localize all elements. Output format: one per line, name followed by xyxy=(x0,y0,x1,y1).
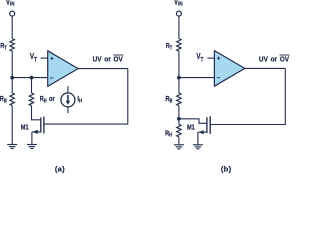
wire output (b) xyxy=(245,67,285,69)
wire feedback to M1 gate (b) xyxy=(210,68,285,124)
wire RT to RB (a) xyxy=(11,51,13,93)
label UV or OV (a) xyxy=(93,55,124,64)
wire feedback to M1 gate (a) xyxy=(44,69,128,125)
label R_B (b) xyxy=(166,95,174,103)
svg-text:UV or OV: UV or OV xyxy=(259,56,290,63)
label (a) xyxy=(55,164,65,173)
label R_H (b) xyxy=(165,130,172,138)
svg-text:RB: RB xyxy=(166,95,174,103)
resistor R_T (b) xyxy=(177,39,181,52)
svg-text:RB: RB xyxy=(0,95,7,103)
label V_T (b) xyxy=(196,53,204,64)
label M1 (a) xyxy=(21,124,29,132)
transistor M1 (a) xyxy=(41,117,44,134)
resistor R_T (a) xyxy=(10,39,14,52)
op-amp U1 (b) xyxy=(214,51,244,87)
node junction A (b) xyxy=(177,76,181,80)
wire RB to ground (a) xyxy=(11,106,13,145)
M1 source with arrow (b) xyxy=(198,130,207,145)
ground M1 (b) xyxy=(193,145,203,149)
svg-text:(b): (b) xyxy=(221,164,232,173)
svg-text:RT: RT xyxy=(0,42,7,50)
resistor R_B (b) xyxy=(177,93,181,106)
label V_T (a) xyxy=(30,53,38,64)
wire RH to ground (b) xyxy=(178,137,180,145)
wire junction row to -input (a) xyxy=(12,77,48,79)
transistor M1 (b) xyxy=(207,116,210,134)
svg-text:(a): (a) xyxy=(55,164,65,173)
wire RH to M1 drain (a) xyxy=(32,106,41,120)
svg-text:RH: RH xyxy=(165,130,172,138)
label R_H or (a) xyxy=(40,95,55,103)
svg-text:VIN: VIN xyxy=(6,0,15,8)
terminal VIN (a) xyxy=(10,11,15,16)
wire VT to +input (a) xyxy=(41,57,48,59)
label R_B (a) xyxy=(0,95,7,103)
wire RB to junction C (b) xyxy=(178,106,180,125)
wire VIN to RT (a) xyxy=(11,16,13,38)
label R_T (b) xyxy=(166,42,173,50)
M1 source with arrow (a) xyxy=(32,130,41,145)
resistor R_B (a) xyxy=(10,93,14,106)
ground M1 (a) xyxy=(27,145,37,149)
ground left (b) xyxy=(174,145,184,149)
node junction C (b) xyxy=(177,117,181,121)
ground left (a) xyxy=(7,145,17,149)
svg-text:RT: RT xyxy=(166,42,173,50)
node junction B (a) xyxy=(30,76,34,80)
svg-text:VT: VT xyxy=(30,53,38,64)
svg-text:VIN: VIN xyxy=(174,0,183,8)
wire output (a) xyxy=(78,68,128,70)
label I_H (a) xyxy=(77,95,82,103)
current source I_H (a) xyxy=(61,86,75,113)
wire junction C to M1 drain (b) xyxy=(179,119,207,124)
svg-text:RH or: RH or xyxy=(40,95,55,103)
resistor R_H (a) xyxy=(29,93,33,106)
svg-text:M1: M1 xyxy=(187,124,195,132)
node VIN (a) xyxy=(6,0,15,8)
node junction A (a) xyxy=(10,76,14,80)
label M1 (b) xyxy=(187,124,195,132)
label (b) xyxy=(221,164,232,173)
terminal VIN (b) xyxy=(176,11,181,16)
wire VIN to RT (b) xyxy=(178,16,180,38)
svg-text:M1: M1 xyxy=(21,124,29,132)
wire junction B to RH (a) xyxy=(31,78,33,93)
wire RT to RB (b) xyxy=(178,51,180,93)
svg-text:IH: IH xyxy=(77,95,82,103)
svg-text:VT: VT xyxy=(196,53,204,64)
svg-text:UV or OV: UV or OV xyxy=(93,56,124,63)
label R_T (a) xyxy=(0,42,7,50)
wire junction row to -input (b) xyxy=(179,77,215,79)
wire VT to +input (b) xyxy=(207,57,214,59)
resistor R_H (b) xyxy=(177,124,181,137)
op-amp U1 (a) xyxy=(48,51,78,87)
label UV or OV (b) xyxy=(259,55,290,64)
node VIN (b) xyxy=(174,0,183,8)
